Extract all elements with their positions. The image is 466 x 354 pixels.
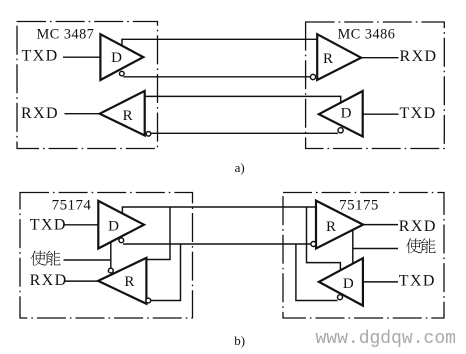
svg-text:R: R bbox=[123, 108, 133, 124]
driver D (U4) bbox=[319, 258, 363, 305]
bubble: U3 receiver inverting input bbox=[146, 298, 151, 303]
bubble: U3 driver inverting output bbox=[119, 238, 124, 243]
bubble: U4 driver inverting output bbox=[338, 295, 343, 300]
wire: U2 receiver output to RXD bbox=[361, 57, 398, 59]
svg-text:D: D bbox=[108, 219, 119, 235]
svg-text:RXD: RXD bbox=[30, 272, 68, 289]
svg-text:RXD: RXD bbox=[399, 218, 437, 235]
wire: U3 driver non-inverting output to U4 receiver input (line 1) bbox=[122, 207, 316, 213]
wire TXD to driver D of U1 bbox=[63, 56, 100, 58]
svg-text:D: D bbox=[341, 106, 352, 122]
wire receiver R of U1 to RXD bbox=[65, 113, 100, 115]
IC box U2 MC3486 (dash-dot boundary) bbox=[306, 22, 445, 149]
wire: U4 driver non-inverting output tap to line 1 bbox=[307, 207, 341, 270]
wire: U3 receiver bubble tap from line 2 bbox=[151, 244, 181, 301]
bubble: U1 driver inverting output bbox=[120, 71, 125, 76]
driver D (U1 top) bbox=[100, 34, 143, 80]
node 使能 enable (right, section b) bbox=[406, 238, 421, 253]
receiver R (U2 top) bbox=[317, 34, 361, 80]
wire enable vertical branch (R enable to D enable) bbox=[352, 230, 354, 263]
wire receiver R of U3 to RXD bbox=[65, 280, 99, 282]
driver D (U3) bbox=[98, 201, 144, 249]
svg-text:TXD: TXD bbox=[22, 47, 59, 64]
bubble: U1 receiver inverting input bbox=[146, 132, 151, 137]
svg-text:R: R bbox=[326, 219, 336, 235]
receiver R (U4) bbox=[316, 201, 363, 249]
bubble: U3 receiver enable (active low) bbox=[108, 268, 113, 273]
wire enable to U4 receiver and driver bbox=[353, 248, 398, 250]
wire: U1 driver non-inverting output to U2 receiver input (line A) bbox=[122, 39, 317, 45]
svg-text:a): a) bbox=[235, 160, 245, 175]
bubble: U2 receiver inverting input bbox=[310, 74, 315, 79]
IC box U3 75174 (dash-dot boundary) bbox=[20, 193, 193, 319]
svg-text:MC 3487: MC 3487 bbox=[37, 27, 95, 43]
wire TXD to driver D of U2 bbox=[363, 113, 399, 115]
svg-text:b): b) bbox=[234, 333, 245, 348]
IC box U1 MC3487 (dash-dot boundary) bbox=[17, 22, 158, 149]
wire: U1 driver inverting output to U2 receiver bubble (line B) bbox=[123, 76, 310, 78]
wire: U4 driver inverting output tap to line 2 bbox=[296, 244, 338, 301]
wire: U2 driver non-inverting output to U1 receiver input (line C) bbox=[145, 96, 341, 103]
svg-text:RXD: RXD bbox=[400, 48, 438, 65]
IC box U4 75175 (dash-dot boundary) bbox=[283, 193, 444, 319]
bubble: U4 receiver inverting input bbox=[311, 242, 316, 247]
svg-text:75175: 75175 bbox=[339, 197, 379, 213]
receiver R (U1 bottom) bbox=[100, 91, 145, 136]
node 使能 enable (left, section b) bbox=[31, 251, 46, 266]
svg-text:www.dgdqw.com: www.dgdqw.com bbox=[316, 329, 456, 349]
svg-text:R: R bbox=[323, 51, 333, 67]
wire: U4 receiver output to RXD bbox=[363, 224, 398, 226]
svg-text:75174: 75174 bbox=[52, 197, 92, 213]
svg-text:RXD: RXD bbox=[21, 105, 59, 122]
receiver R (U3) bbox=[98, 258, 146, 304]
svg-text:TXD: TXD bbox=[399, 272, 436, 289]
wire enable to U3 driver and receiver bbox=[64, 259, 111, 261]
wire: U2 driver inverting output to U1 receiver bubble (line D) bbox=[151, 132, 338, 134]
bubble: U2 driver inverting output bbox=[338, 128, 343, 133]
svg-text:D: D bbox=[343, 276, 354, 292]
wire: U3 driver inverting output to U4 receiver bubble (line 2) bbox=[123, 243, 311, 245]
wire enable vertical branch (to D enable pin and R enable bubble) bbox=[110, 242, 112, 268]
wire TXD to driver D of U3 bbox=[65, 224, 99, 226]
svg-text:TXD: TXD bbox=[400, 105, 437, 122]
svg-text:R: R bbox=[124, 274, 134, 290]
wire: U3 receiver input tap from line 1 bbox=[146, 207, 170, 260]
driver D (U2 bottom) bbox=[319, 91, 363, 137]
svg-text:TXD: TXD bbox=[30, 216, 67, 233]
svg-text:D: D bbox=[111, 50, 122, 66]
svg-text:MC 3486: MC 3486 bbox=[338, 27, 396, 43]
wire: U4 driver output to TXD bbox=[363, 281, 398, 283]
